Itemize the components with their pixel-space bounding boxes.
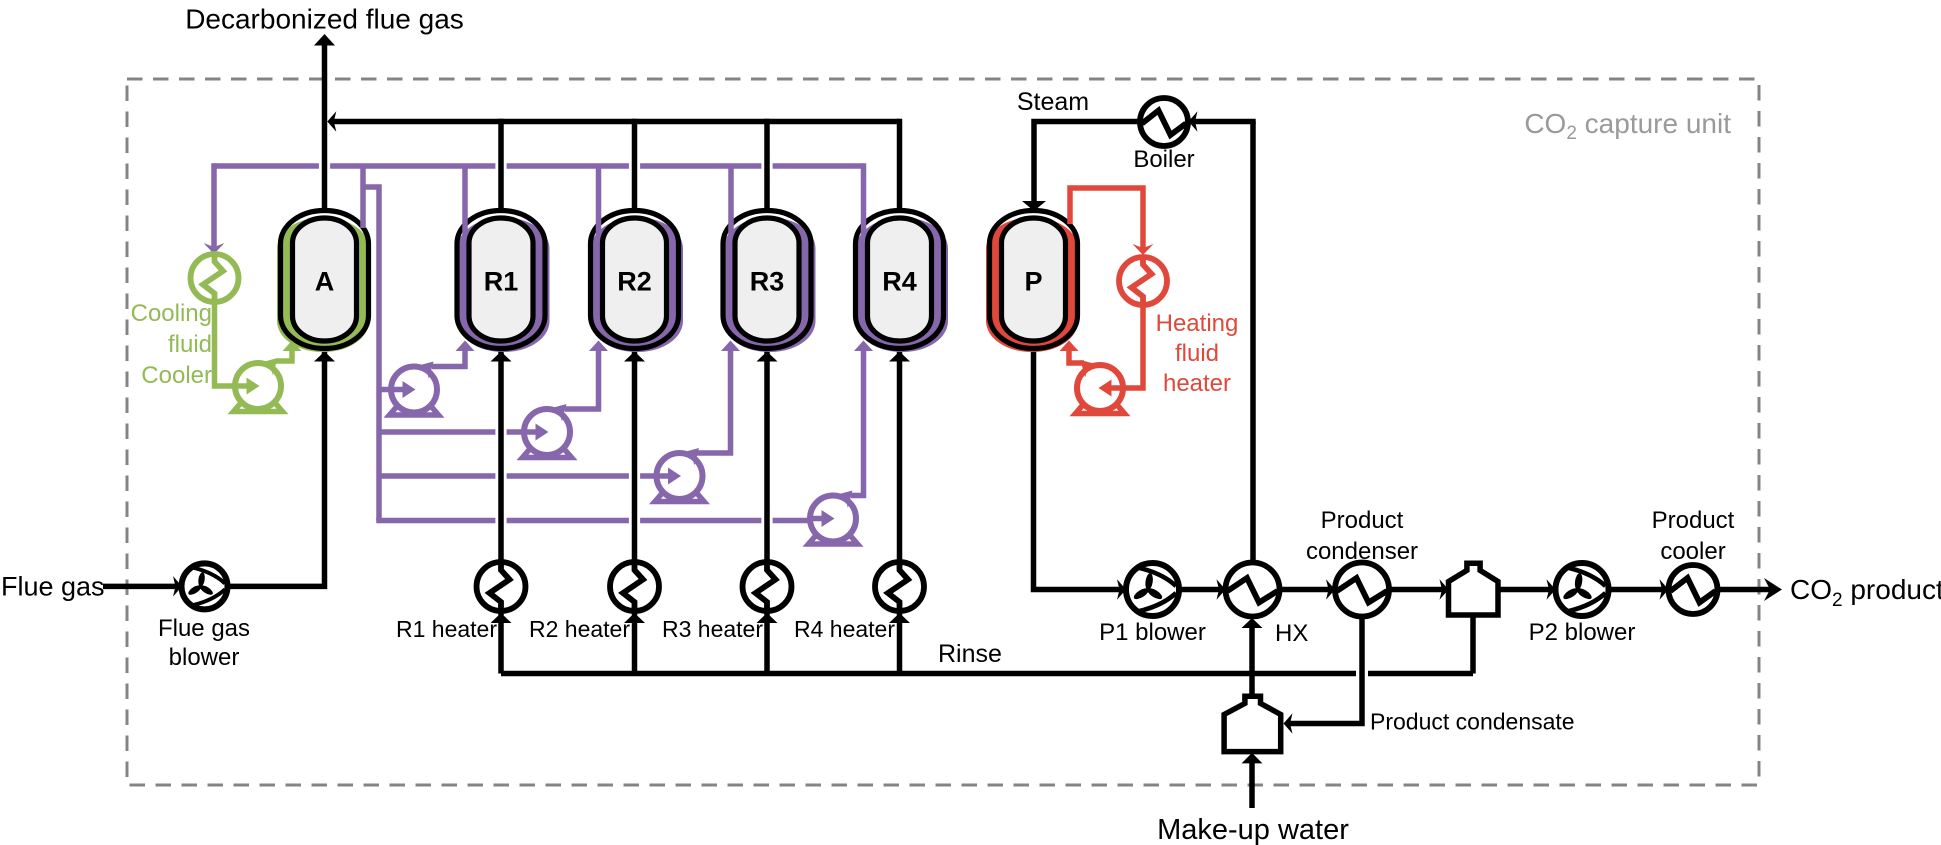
arrow into R4 bottom xyxy=(889,352,910,362)
arrow into flue gas blower xyxy=(173,576,182,597)
arrow into A bottom xyxy=(314,352,335,362)
green pump discharge xyxy=(276,347,292,361)
heating fluid pump xyxy=(1074,354,1124,414)
arrow into A bottom jacket xyxy=(283,341,302,352)
svg-text:Decarbonized flue gas: Decarbonized flue gas xyxy=(185,4,464,35)
R3 heater xyxy=(743,562,792,611)
circulation pump R2-R3 xyxy=(655,442,705,502)
steam line boiler to HX xyxy=(1250,122,1256,563)
svg-text:Steam: Steam xyxy=(1017,88,1089,116)
P bottom line to product train xyxy=(1034,349,1123,590)
line separator to P2 blower xyxy=(1498,587,1552,593)
arrow into R2 heater xyxy=(624,613,645,623)
arrow into product cooler xyxy=(1660,579,1669,600)
purple drop into R2 jacket xyxy=(596,166,602,235)
vessel R1 xyxy=(457,211,550,353)
svg-text:P: P xyxy=(1024,267,1042,297)
arrow into R3 bottom xyxy=(757,352,778,362)
R1 heater xyxy=(477,562,526,611)
arrow into R2 bottom xyxy=(624,352,645,362)
red pump discharge xyxy=(1069,347,1084,363)
R1 column line vessel to rinse xyxy=(498,349,504,674)
svg-text:blower: blower xyxy=(169,644,240,671)
vessel P xyxy=(986,211,1078,353)
pump 3 discharge xyxy=(697,348,731,453)
P1 blower xyxy=(1126,563,1179,616)
flue gas blower xyxy=(182,563,228,609)
svg-text:Make-up water: Make-up water xyxy=(1157,814,1349,845)
header drop to R3 xyxy=(764,119,770,211)
R4 column line vessel to rinse xyxy=(897,349,903,674)
steam line to P xyxy=(1034,122,1140,203)
svg-text:Product: Product xyxy=(1321,507,1404,534)
svg-text:R2 heater: R2 heater xyxy=(529,616,630,642)
svg-text:Flue gas: Flue gas xyxy=(1,572,105,602)
svg-text:A: A xyxy=(315,267,335,297)
svg-text:fluid: fluid xyxy=(1175,340,1219,367)
purple drop to cooling fluid cooler xyxy=(211,163,217,250)
svg-text:Heating: Heating xyxy=(1156,310,1239,337)
product condenser xyxy=(1335,563,1389,617)
purple drop into R1 jacket xyxy=(462,166,468,235)
pump 2 suction line xyxy=(379,429,495,435)
arrow into R3 bottom jacket xyxy=(721,341,740,352)
vessel A (absorber) xyxy=(277,211,369,353)
svg-text:R4: R4 xyxy=(882,267,917,297)
svg-text:Rinse: Rinse xyxy=(938,640,1002,668)
pump 4 suction line xyxy=(376,518,495,524)
R2 column line vessel to rinse xyxy=(632,349,638,674)
arrow into cooling fluid cooler xyxy=(204,243,225,254)
svg-text:Cooling: Cooling xyxy=(131,300,212,327)
HX heat exchanger xyxy=(1226,563,1280,617)
circulation pump A-R1 xyxy=(390,355,440,415)
green cooler outlet pipe xyxy=(215,300,237,386)
pump 1 suction line xyxy=(379,387,406,393)
pump 1 discharge xyxy=(432,348,465,367)
R4 heater xyxy=(875,562,924,611)
purple cooling-fluid header xyxy=(214,163,319,169)
red pipe P top to heater xyxy=(1070,188,1143,251)
rinse collection line xyxy=(501,671,1356,677)
P2 blower xyxy=(1556,563,1609,616)
header drop to R4 xyxy=(897,119,903,211)
arrow into product condenser xyxy=(1326,579,1335,600)
R2 heater xyxy=(610,562,659,611)
arrow into P bottom jacket xyxy=(1060,341,1079,352)
header drop to R2 xyxy=(632,119,638,211)
arrow into R3 heater xyxy=(757,613,778,623)
separator 1 (product knockout) xyxy=(1449,563,1499,615)
product condensate line xyxy=(1290,617,1362,724)
circulation pump R3-R4 xyxy=(809,484,859,544)
decarbonized flue gas line xyxy=(322,45,328,211)
svg-text:R1: R1 xyxy=(484,267,519,297)
svg-text:P2 blower: P2 blower xyxy=(1529,619,1636,646)
arrow into HX bottom xyxy=(1242,618,1263,628)
svg-text:Product: Product xyxy=(1652,507,1735,534)
arrow into R1 bottom jacket xyxy=(456,341,475,352)
arrow condensate into separator 2 xyxy=(1284,713,1293,734)
R3 column line vessel to rinse xyxy=(764,349,770,674)
svg-text:P1 blower: P1 blower xyxy=(1099,619,1206,646)
arrow steam into P xyxy=(1022,201,1046,211)
red pipe heater to pump xyxy=(1124,303,1143,388)
svg-text:Cooler: Cooler xyxy=(141,362,212,389)
svg-text:R3 heater: R3 heater xyxy=(662,616,763,642)
svg-text:condenser: condenser xyxy=(1306,538,1418,565)
arrow make-up water into separator 2 xyxy=(1242,753,1263,764)
arrow into HX xyxy=(1217,579,1226,600)
line HX to condenser xyxy=(1280,587,1332,593)
offgas header xyxy=(330,119,900,125)
make-up water line xyxy=(1249,762,1255,808)
line cooler to CO2 product xyxy=(1718,587,1773,593)
boiler xyxy=(1140,98,1188,146)
pump 2 discharge xyxy=(565,348,599,409)
dashed boundary of CO2 capture unit xyxy=(127,79,1759,785)
pump 3 suction line xyxy=(379,473,495,479)
separator 2 (make-up water drum) xyxy=(1224,696,1281,751)
arrow into R2 bottom jacket xyxy=(589,341,608,352)
heating fluid heater HX xyxy=(1119,257,1167,305)
arrow CO2 product xyxy=(1764,578,1782,601)
arrow into P1 blower xyxy=(1117,579,1126,600)
line P1 blower to HX xyxy=(1179,587,1222,593)
cooling fluid pump xyxy=(234,352,284,412)
flue gas inlet line xyxy=(103,584,179,590)
separator 2 outlet to HX xyxy=(1249,627,1255,696)
product cooler xyxy=(1669,565,1718,614)
vessel R2 xyxy=(591,211,684,353)
svg-text:Flue gas: Flue gas xyxy=(158,615,250,642)
svg-text:HX: HX xyxy=(1275,620,1308,647)
arrow into separator xyxy=(1440,579,1449,600)
purple drop into R4 jacket xyxy=(861,163,867,235)
separator 1 bottoms line xyxy=(1470,615,1476,674)
arrow into R4 heater xyxy=(889,613,910,623)
svg-text:R3: R3 xyxy=(750,267,785,297)
purple jog to manifold xyxy=(363,187,379,521)
svg-text:heater: heater xyxy=(1163,370,1231,397)
arrow into R1 heater xyxy=(491,613,512,623)
line P2 blower to cooler xyxy=(1609,587,1666,593)
purple drop into R3 jacket xyxy=(728,166,734,235)
svg-text:fluid: fluid xyxy=(168,331,212,358)
arrow into heating fluid heater xyxy=(1133,244,1154,255)
purple drop into absorber A jacket xyxy=(360,166,366,228)
cooling fluid cooler xyxy=(191,254,239,302)
arrow into boiler xyxy=(1189,111,1198,132)
svg-text:Boiler: Boiler xyxy=(1133,146,1194,173)
arrow decarbonized flue gas xyxy=(314,34,335,46)
arrow into R1 bottom xyxy=(491,352,512,362)
svg-text:R1 heater: R1 heater xyxy=(396,616,497,642)
svg-text:Product condensate: Product condensate xyxy=(1370,709,1575,735)
arrow into R4 bottom jacket xyxy=(854,341,873,352)
svg-text:cooler: cooler xyxy=(1660,538,1725,565)
svg-text:CO2 capture unit: CO2 capture unit xyxy=(1524,108,1731,144)
vessel R3 xyxy=(723,211,816,353)
arrow into P2 blower xyxy=(1547,579,1556,600)
svg-text:R2: R2 xyxy=(617,267,652,297)
flue gas blower to A riser xyxy=(227,349,325,587)
pump 4 discharge xyxy=(851,348,864,496)
vessel R4 xyxy=(856,211,949,353)
circulation pump R1-R2 xyxy=(523,398,573,458)
header drop to R1 xyxy=(498,119,504,211)
svg-text:R4 heater: R4 heater xyxy=(794,616,895,642)
line condenser to separator xyxy=(1389,587,1445,593)
arrow header into A riser xyxy=(327,111,336,132)
